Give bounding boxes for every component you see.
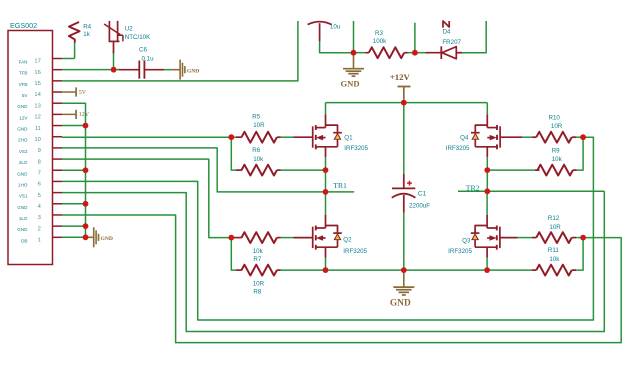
svg-text:5: 5	[38, 193, 41, 199]
svg-text:GND: GND	[17, 104, 28, 109]
svg-text:R9: R9	[552, 147, 560, 154]
svg-text:U2: U2	[125, 26, 133, 33]
svg-text:VS2: VS2	[19, 149, 28, 154]
svg-text:R12: R12	[548, 215, 560, 222]
svg-text:13: 13	[34, 103, 40, 109]
svg-text:11: 11	[35, 126, 41, 132]
svg-text:C1: C1	[418, 191, 427, 198]
svg-text:R10: R10	[549, 114, 561, 121]
svg-text:FR207: FR207	[442, 39, 461, 46]
svg-text:TR1: TR1	[333, 181, 347, 190]
svg-text:6: 6	[38, 182, 41, 188]
svg-text:7: 7	[38, 170, 41, 176]
svg-text:9: 9	[38, 148, 41, 154]
svg-text:2200uF: 2200uF	[409, 203, 430, 210]
svg-text:R5: R5	[252, 114, 260, 121]
svg-text:12V: 12V	[79, 112, 90, 118]
svg-text:FAN: FAN	[19, 60, 28, 65]
svg-text:GND: GND	[187, 68, 199, 74]
svg-text:10R: 10R	[253, 122, 265, 129]
svg-text:10k: 10k	[552, 156, 563, 163]
svg-text:12V: 12V	[19, 115, 28, 120]
svg-text:GND: GND	[101, 236, 113, 242]
svg-text:2HO: 2HO	[18, 138, 28, 143]
svg-text:1LO: 1LO	[19, 216, 28, 221]
svg-text:5V: 5V	[22, 93, 29, 98]
svg-text:GND: GND	[17, 205, 28, 210]
svg-text:14: 14	[34, 92, 41, 98]
svg-text:10R: 10R	[549, 224, 561, 231]
svg-text:2: 2	[38, 226, 41, 232]
svg-text:0.1u: 0.1u	[142, 56, 155, 63]
svg-text:GND: GND	[17, 127, 28, 132]
svg-text:1: 1	[38, 238, 41, 244]
svg-text:IRF3205: IRF3205	[448, 248, 472, 255]
svg-text:GND: GND	[17, 171, 28, 176]
svg-text:8: 8	[38, 159, 41, 165]
svg-text:VFB: VFB	[19, 82, 28, 87]
svg-text:2LO: 2LO	[19, 160, 28, 165]
svg-text:Q4: Q4	[460, 135, 469, 142]
svg-text:10k: 10k	[549, 256, 560, 263]
svg-text:Q3: Q3	[462, 237, 471, 244]
svg-text:R4: R4	[83, 24, 91, 31]
svg-text:IRF3205: IRF3205	[446, 145, 470, 152]
svg-text:3: 3	[38, 215, 41, 221]
svg-text:Q2: Q2	[343, 237, 352, 244]
svg-text:D4: D4	[443, 29, 451, 36]
svg-text:IRF3205: IRF3205	[344, 145, 368, 152]
svg-text:TFB: TFB	[19, 71, 28, 76]
svg-text:1k: 1k	[83, 31, 90, 38]
svg-text:R8: R8	[253, 288, 261, 295]
svg-text:10k: 10k	[253, 248, 264, 255]
svg-text:R6: R6	[252, 147, 260, 154]
svg-text:EGS002: EGS002	[10, 21, 37, 30]
svg-text:17: 17	[34, 59, 40, 65]
svg-text:GND: GND	[340, 78, 359, 88]
svg-text:1HO: 1HO	[18, 182, 28, 187]
svg-text:R7: R7	[253, 256, 261, 263]
svg-text:5V: 5V	[79, 90, 87, 96]
svg-text:10R: 10R	[551, 123, 563, 130]
svg-text:100k: 100k	[373, 38, 387, 45]
svg-text:DB: DB	[21, 238, 27, 243]
svg-text:15: 15	[34, 81, 40, 87]
svg-text:10R: 10R	[253, 280, 265, 287]
svg-text:GND: GND	[390, 299, 411, 309]
svg-text:16: 16	[34, 70, 40, 76]
svg-text:IRF3205: IRF3205	[343, 248, 367, 255]
svg-text:R3: R3	[375, 30, 383, 37]
svg-text:NTC/10K: NTC/10K	[125, 34, 151, 41]
svg-text:VS1: VS1	[19, 194, 28, 199]
svg-text:+12V: +12V	[390, 72, 411, 82]
svg-text:TR2: TR2	[466, 184, 480, 193]
svg-text:10k: 10k	[253, 156, 264, 163]
svg-text:12: 12	[34, 115, 40, 121]
svg-text:10u: 10u	[330, 24, 341, 31]
svg-text:10: 10	[34, 137, 40, 143]
svg-text:R11: R11	[548, 247, 559, 254]
svg-text:C6: C6	[139, 47, 147, 54]
svg-text:GND: GND	[17, 227, 28, 232]
svg-text:Q1: Q1	[344, 135, 353, 142]
